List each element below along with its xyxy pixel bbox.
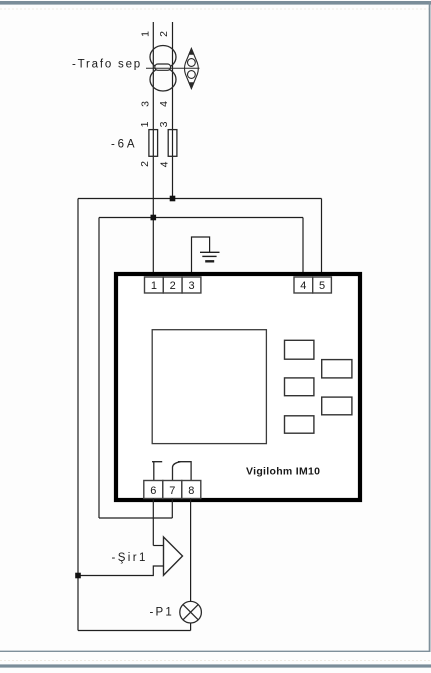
wire: net B left branch x=99: [98, 218, 100, 519]
button left 1: [285, 340, 314, 359]
page frame bottom perforation line: [0, 660, 431, 662]
lamp -P1: [180, 601, 202, 623]
wire: net B drop to terminal 4: [302, 218, 304, 278]
terminal 7: [163, 481, 182, 499]
svg-text:4: 4: [158, 101, 170, 107]
wire: ground riser from terminal 3: [192, 237, 210, 277]
svg-text:-Trafo sep: -Trafo sep: [72, 59, 142, 71]
terminal 3: [182, 277, 201, 293]
terminal 5: [313, 277, 332, 293]
terminal 2: [163, 277, 182, 293]
svg-text:1: 1: [151, 280, 157, 292]
svg-text:3: 3: [140, 101, 152, 107]
svg-text:1: 1: [140, 31, 152, 37]
source arrows symbol: [185, 49, 199, 89]
display window: [152, 330, 266, 444]
svg-text:2: 2: [158, 31, 170, 37]
terminal 8: [182, 481, 201, 499]
wire through fuse F2: [172, 130, 174, 156]
page frame top perforation line: [0, 8, 431, 10]
terminal 6: [144, 481, 163, 499]
wire: terminal 7 drop: [171, 499, 173, 519]
transformer axis line: [146, 67, 200, 69]
wire: lamp to bottom return: [190, 623, 192, 631]
drawing frame bottom line: [0, 651, 431, 652]
svg-text:4: 4: [300, 280, 306, 292]
button left 2: [285, 378, 314, 396]
terminal 4: [294, 277, 313, 293]
svg-text:3: 3: [188, 280, 194, 292]
svg-text:-P1: -P1: [150, 607, 175, 619]
svg-text:5: 5: [319, 280, 325, 292]
wire: left supply conductor x=153: [152, 22, 154, 277]
page frame right border: [429, 1, 431, 652]
svg-text:7: 7: [169, 485, 175, 497]
svg-text:2: 2: [170, 280, 176, 292]
horn -Sir1: [164, 537, 183, 575]
relay contact terminal 8 side: [178, 462, 191, 481]
terminal 1: [145, 277, 164, 293]
svg-text:4: 4: [159, 161, 171, 167]
transformer -Trafo sep secondary winding: [150, 68, 176, 91]
wire: left rail x=78: [77, 199, 79, 631]
button left 3: [285, 416, 314, 433]
svg-text:-Şir1: -Şir1: [112, 552, 148, 564]
relay contact common terminal 7: [173, 462, 181, 481]
wire: horn bottom stub to left rail: [78, 566, 164, 576]
wire: terminal 8 to lamp: [190, 499, 192, 603]
wire: net A drop to terminal 5: [321, 199, 323, 278]
wire: terminal 6 to horn input: [152, 499, 154, 546]
wire: net B to terminal 7: [99, 517, 172, 519]
svg-text:Vigilohm IM10: Vigilohm IM10: [246, 466, 320, 478]
junction dot net A / right conductor: [170, 196, 176, 202]
svg-text:8: 8: [188, 485, 194, 497]
fuse F1 body: [149, 130, 158, 157]
wire: right supply conductor x=172.5: [172, 22, 174, 199]
transformer core pill: [155, 64, 171, 70]
wire through fuse F1: [152, 130, 154, 156]
button right 1: [322, 360, 352, 378]
junction dot on left rail: [75, 573, 81, 579]
fuse F2 body: [168, 130, 177, 157]
svg-text:1: 1: [139, 121, 151, 127]
wire: horn top stub: [153, 545, 163, 547]
svg-text:3: 3: [158, 121, 170, 127]
Vigilohm IM10 enclosure: [116, 274, 360, 500]
ground symbol: [200, 252, 220, 261]
svg-text:6: 6: [150, 485, 156, 497]
junction dot net B / left conductor: [151, 215, 157, 221]
page frame bottom border: [0, 664, 431, 667]
wire: bottom return y=630.5: [78, 630, 191, 632]
svg-text:-6A: -6A: [111, 139, 137, 151]
wire: net B horizontal y=217.5: [99, 217, 303, 219]
wire: net A horizontal y=198.5: [78, 198, 322, 200]
page frame top border: [0, 1, 431, 5]
transformer -Trafo sep primary winding: [150, 46, 176, 69]
svg-text:2: 2: [139, 161, 151, 167]
relay contact terminal 6 side: [152, 462, 162, 481]
button right 2: [322, 397, 352, 415]
